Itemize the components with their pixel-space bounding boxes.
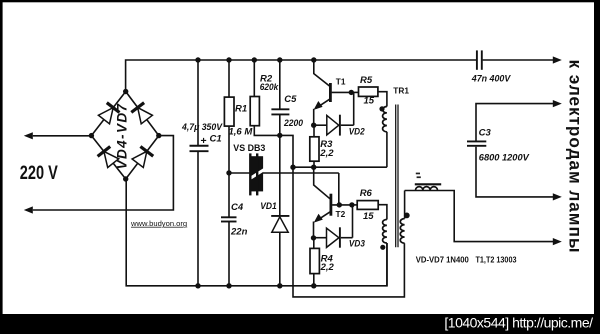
- junction C5-R2-VD1: [277, 133, 282, 138]
- wire top rail (+): [126, 60, 477, 92]
- phase dot primary: [404, 213, 410, 219]
- wire C1 top lead: [197, 60, 199, 145]
- svg-text:15: 15: [364, 95, 375, 106]
- wire emitter to R4: [313, 238, 315, 249]
- wire VD2 up to base node: [353, 92, 355, 125]
- wire C5 bottom lead: [279, 114, 281, 135]
- svg-text:1,6 M: 1,6 M: [229, 126, 254, 137]
- wire R1 top lead: [228, 60, 230, 97]
- svg-text:R5: R5: [360, 75, 373, 86]
- diode VD4 (bridge upper-left): [98, 108, 113, 124]
- junction C4/bottom rail: [226, 283, 231, 288]
- transistor T1: [329, 83, 332, 102]
- junction T1 collector/top rail: [311, 57, 316, 62]
- junction R2/top rail: [252, 57, 257, 62]
- wire R2 top lead: [253, 60, 255, 97]
- wire VD1 bottom lead: [279, 232, 281, 285]
- svg-text:www.budyon.org: www.budyon.org: [130, 219, 187, 228]
- junction C1/top rail: [195, 57, 200, 62]
- bridge edge wire: [91, 136, 125, 179]
- diac VS DB3: [248, 153, 265, 195]
- junction T1 emitter node: [311, 123, 316, 128]
- wire base to R6: [352, 204, 357, 206]
- svg-text:VD1: VD1: [260, 201, 277, 212]
- svg-text:C5: C5: [284, 94, 297, 105]
- node bridge right: [156, 133, 161, 138]
- TR1 feedback winding 1 (T1 base): [383, 107, 387, 132]
- wire choke to primary: [404, 191, 406, 219]
- wire VD3 up to base node: [352, 205, 354, 238]
- svg-text:+: +: [201, 135, 207, 147]
- wire top rail to lamp: [483, 59, 554, 61]
- svg-text:C1: C1: [210, 134, 222, 145]
- transistor T2: [329, 194, 332, 216]
- junction T2 base node: [349, 202, 354, 207]
- arrow to lamp electrode 2: [553, 100, 562, 107]
- border frame right: [594, 0, 600, 334]
- phase dot winding 1: [379, 106, 384, 111]
- wire emitter to R3: [313, 125, 315, 137]
- junction R1/top rail: [226, 57, 231, 62]
- wire T1 base: [332, 91, 352, 93]
- svg-text:T1,T2 13003: T1,T2 13003: [476, 255, 517, 265]
- wire VD3 to base: [341, 237, 353, 239]
- resistor R4 2.2: [310, 248, 319, 273]
- wire VD1 top lead: [279, 135, 281, 215]
- arrow 220V input upper: [24, 132, 33, 139]
- svg-text:15: 15: [363, 211, 374, 222]
- node bridge left: [89, 133, 94, 138]
- wire T1 emitter down: [313, 109, 315, 125]
- choke mark: [416, 173, 420, 175]
- wire R3 to midpoint: [313, 161, 315, 167]
- svg-text:TR1: TR1: [393, 86, 409, 96]
- TR1 primary winding: [400, 219, 404, 244]
- TR1 feedback winding 2 (T2 base): [383, 220, 387, 244]
- svg-text:C4: C4: [231, 202, 244, 213]
- svg-text:47n 400V: 47n 400V: [471, 73, 511, 84]
- wire T2 emitter diag: [316, 211, 331, 221]
- arrow to lamp electrode 1: [553, 56, 562, 63]
- wire winding 1 to midpoint: [386, 132, 388, 167]
- wire emitter to VD3: [314, 237, 327, 239]
- diode VD5 (bridge upper-right): [138, 108, 153, 124]
- junction T2 emitter node: [311, 235, 316, 240]
- diode VD2: [327, 115, 339, 134]
- wire midpoint to TR1 primary: [280, 135, 405, 297]
- arrow 220V input lower: [24, 206, 33, 213]
- diode VD3: [327, 228, 339, 247]
- transformer TR1 core: [395, 105, 397, 248]
- svg-text:22n: 22n: [230, 227, 248, 238]
- svg-text:VS DB3: VS DB3: [233, 143, 265, 153]
- wire base to R5: [351, 91, 358, 93]
- svg-text:R1: R1: [235, 103, 247, 114]
- capacitor C1 4.7u 350V: [190, 145, 209, 147]
- junction T1 base node: [349, 90, 354, 95]
- node bridge bottom: [123, 176, 128, 181]
- T2 emitter arrowhead: [314, 214, 323, 223]
- capacitor C5 2200: [271, 108, 289, 110]
- border frame left: [0, 0, 3, 334]
- arrow to lamp electrode 4: [553, 238, 562, 245]
- wire midpoint rail: [293, 166, 387, 168]
- junction midpoint/R3/T2 collector: [311, 165, 316, 170]
- resistor R3 2.2: [310, 137, 319, 161]
- svg-text:VD2: VD2: [349, 127, 366, 138]
- svg-text:[1040x544] http://upic.me/: [1040x544] http://upic.me/: [444, 315, 593, 331]
- wire R5 to TR1 winding 1: [378, 92, 387, 107]
- resistor R5 15: [359, 87, 378, 96]
- wire C3 top: [476, 104, 553, 141]
- phase dot winding 2: [380, 245, 385, 250]
- junction midpoint tap: [290, 165, 295, 170]
- T1 emitter arrowhead: [314, 101, 323, 110]
- VD3 cathode bar: [339, 227, 341, 247]
- svg-text:6800 1200V: 6800 1200V: [479, 152, 530, 163]
- bridge edge wire: [126, 92, 159, 136]
- watermark bar: [0, 314, 600, 334]
- diode VD6 (bridge lower-left): [104, 151, 119, 167]
- wire C3 bottom: [476, 147, 553, 197]
- svg-text:T1: T1: [336, 76, 346, 86]
- svg-text:2,2: 2,2: [320, 262, 335, 273]
- resistor R6 15: [357, 201, 378, 210]
- svg-text:C3: C3: [479, 128, 492, 139]
- svg-text:T2: T2: [336, 209, 346, 219]
- svg-text:4,7μ 350V: 4,7μ 350V: [181, 122, 223, 133]
- wire C1 bottom lead: [197, 151, 199, 286]
- diode VD7 (bridge lower-right): [132, 151, 147, 167]
- svg-text:R6: R6: [360, 188, 373, 199]
- wire choke to lamp: [442, 191, 554, 242]
- capacitor 47n 400V: [476, 50, 478, 69]
- bridge edge wire: [126, 136, 159, 179]
- wire bottom rail (-): [126, 179, 387, 286]
- wire T1 emitter diag: [316, 99, 330, 109]
- resistor R2 620k: [250, 97, 259, 126]
- VD2 cathode bar: [339, 115, 341, 136]
- bridge edge wire: [91, 92, 125, 136]
- wire winding 2 to bottom rail: [386, 243, 388, 286]
- junction C1/bottom rail: [195, 283, 200, 288]
- junction R1-C4/diac: [226, 170, 231, 175]
- svg-text:VD-VD7 1N400: VD-VD7 1N400: [416, 255, 469, 265]
- svg-text:2,2: 2,2: [319, 148, 334, 159]
- wire C4 bottom lead: [228, 222, 230, 286]
- wire VD2 to base: [341, 124, 354, 126]
- wire AC input lower: [33, 136, 174, 210]
- diode VD1: [271, 215, 289, 217]
- junction diac/T2 base: [337, 202, 342, 207]
- junction C5/top rail: [277, 57, 282, 62]
- wire R4 to bottom rail: [313, 274, 315, 286]
- wire emitter to VD2: [314, 124, 327, 126]
- inductor L (choke): [416, 187, 438, 191]
- svg-text:VD4-VD7: VD4-VD7: [115, 103, 130, 170]
- wire R6 to TR1 winding 2: [378, 205, 387, 220]
- svg-text:620k: 620k: [260, 82, 279, 93]
- wire C5 top lead: [279, 60, 281, 109]
- arrow to lamp electrode 3: [553, 193, 562, 200]
- wire choke bottom line: [405, 190, 442, 192]
- resistor R1 1.6M: [224, 97, 234, 126]
- junction R4/bottom rail: [311, 283, 316, 288]
- border frame top: [0, 0, 600, 2]
- capacitor C3 6800 1200V: [467, 140, 486, 142]
- wire T2 emitter down: [313, 222, 315, 238]
- wire R1 to C4: [228, 126, 230, 217]
- svg-text:VD3: VD3: [349, 239, 366, 250]
- wire AC input upper: [33, 135, 92, 137]
- wire diac to T2 base: [338, 173, 340, 205]
- svg-text:к электродам лампы: к электродам лампы: [565, 60, 585, 253]
- wire T2 collector: [314, 167, 330, 199]
- node bridge top: [123, 89, 128, 94]
- wire T2 base: [332, 204, 352, 206]
- svg-text:2200: 2200: [283, 118, 304, 129]
- svg-text:220 V: 220 V: [20, 162, 58, 184]
- wire R2 bottom to C5 node: [254, 126, 279, 136]
- junction VD1/bottom rail: [277, 283, 282, 288]
- wire diac line: [229, 172, 339, 174]
- wire T1 collector: [314, 60, 330, 86]
- capacitor C4 22n: [221, 216, 237, 218]
